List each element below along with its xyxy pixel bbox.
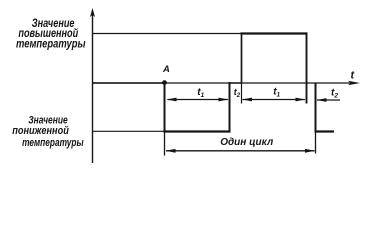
waveform falling edge from elevated: [306, 33, 308, 104]
svg-text:температуры: температуры: [22, 137, 84, 149]
svg-text:t: t: [351, 70, 356, 82]
svg-text:температуры: температуры: [16, 36, 86, 50]
node A dot: [162, 80, 167, 85]
waveform rising edge to ambient: [229, 82, 231, 132]
waveform falling edge to lowered: [315, 83, 317, 132]
elevated temperature level line: [93, 33, 242, 35]
waveform low segment t1: [164, 130, 231, 132]
waveform high segment t1: [241, 32, 308, 34]
label lowered temperature value: [12, 114, 84, 149]
waveform final low segment: [315, 130, 335, 132]
waveform falling edge at A: [164, 82, 166, 132]
svg-text:t2: t2: [331, 88, 338, 100]
lowered temperature level line: [93, 130, 165, 132]
svg-text:Один цикл: Один цикл: [220, 136, 273, 148]
extension line below lowered falling edge: [315, 132, 317, 154]
svg-text:t1: t1: [197, 87, 204, 99]
extension line below elevated rising edge: [241, 83, 243, 104]
time axis: [93, 81, 361, 86]
dimension line t1 first: [167, 98, 229, 102]
svg-text:пониженной: пониженной: [12, 125, 69, 137]
waveform rising edge to elevated: [241, 33, 243, 83]
temperature axis (vertical): [90, 8, 95, 163]
dimension line t1 second: [242, 98, 306, 102]
extension line below A edge: [164, 132, 166, 156]
svg-text:t1: t1: [273, 87, 280, 99]
dimension line one cycle: [166, 149, 316, 153]
svg-text:t2: t2: [234, 87, 241, 99]
waveform ambient segment before A: [93, 82, 165, 84]
label elevated temperature value: [16, 16, 86, 50]
dimension arrow t2 second (outside): [317, 98, 341, 102]
waveform ambient segment t2: [230, 82, 242, 84]
svg-text:A: A: [162, 64, 170, 75]
